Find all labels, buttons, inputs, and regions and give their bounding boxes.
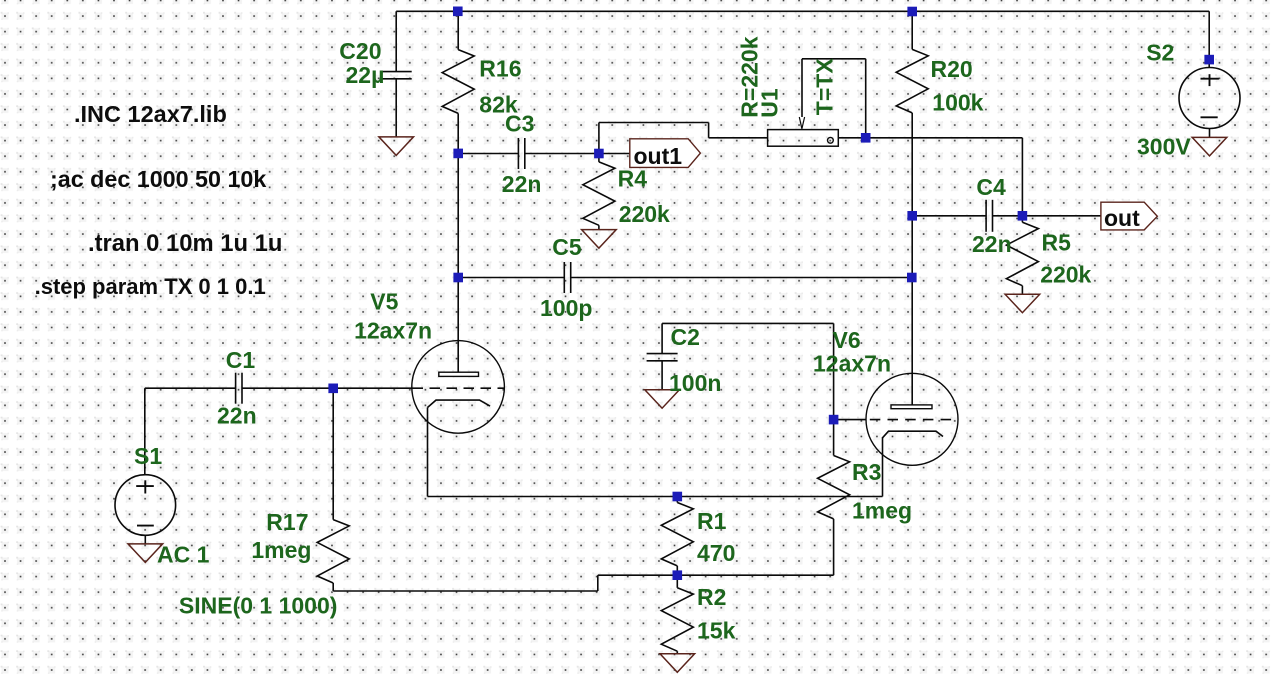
- svg-text:;ac dec 1000 50 10k: ;ac dec 1000 50 10k: [50, 166, 266, 192]
- svg-text:22n: 22n: [502, 171, 542, 197]
- svg-text:R20: R20: [931, 56, 973, 82]
- svg-text:S2: S2: [1146, 40, 1174, 66]
- svg-text:.step param TX 0 1 0.1: .step param TX 0 1 0.1: [35, 274, 266, 299]
- svg-text:R3: R3: [852, 459, 881, 485]
- svg-text:SINE(0 1 1000): SINE(0 1 1000): [179, 592, 338, 618]
- svg-text:1meg: 1meg: [852, 498, 912, 524]
- svg-text:C20: C20: [339, 38, 381, 64]
- svg-text:S1: S1: [134, 443, 162, 469]
- svg-text:220k: 220k: [1040, 262, 1091, 288]
- svg-text:12ax7n: 12ax7n: [354, 317, 432, 343]
- svg-text:.INC 12ax7.lib: .INC 12ax7.lib: [74, 101, 227, 127]
- svg-text:V6: V6: [833, 327, 861, 353]
- svg-text:C2: C2: [671, 324, 700, 350]
- svg-text:100k: 100k: [932, 89, 983, 115]
- svg-text:22n: 22n: [972, 231, 1012, 257]
- svg-text:U1: U1: [757, 88, 783, 118]
- svg-text:220k: 220k: [619, 201, 670, 227]
- svg-text:12ax7n: 12ax7n: [813, 351, 891, 377]
- svg-text:22n: 22n: [217, 403, 257, 429]
- svg-text:C3: C3: [505, 110, 534, 136]
- svg-text:22µ: 22µ: [346, 62, 385, 88]
- svg-text:C4: C4: [976, 174, 1006, 200]
- svg-text:.tran 0 10m 1u 1u: .tran 0 10m 1u 1u: [88, 230, 282, 257]
- svg-text:T=TX: T=TX: [812, 58, 838, 116]
- svg-text:R16: R16: [479, 56, 521, 82]
- svg-text:AC 1: AC 1: [157, 541, 210, 567]
- svg-text:470: 470: [697, 540, 735, 566]
- svg-text:R17: R17: [266, 509, 308, 535]
- svg-text:C5: C5: [552, 234, 582, 260]
- svg-text:1meg: 1meg: [251, 537, 311, 563]
- svg-text:C1: C1: [226, 347, 256, 373]
- svg-text:out: out: [1104, 205, 1140, 231]
- svg-text:15k: 15k: [697, 618, 736, 644]
- svg-text:R4: R4: [618, 166, 648, 192]
- svg-text:100n: 100n: [669, 370, 721, 396]
- svg-text:100p: 100p: [540, 295, 592, 321]
- svg-text:V5: V5: [370, 289, 398, 315]
- svg-text:R1: R1: [697, 508, 727, 534]
- svg-text:300V: 300V: [1137, 134, 1191, 160]
- svg-text:R5: R5: [1042, 229, 1072, 255]
- svg-text:R2: R2: [697, 584, 726, 610]
